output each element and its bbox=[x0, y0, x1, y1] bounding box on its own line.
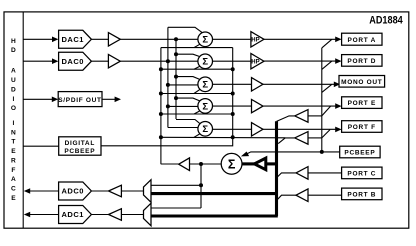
mixer 2 top input from DAC1 bus bbox=[176, 54, 201, 57]
svg-text:S/PDIF OUT: S/PDIF OUT bbox=[58, 97, 101, 104]
svg-text:R: R bbox=[11, 157, 16, 164]
svg-text:PORT F: PORT F bbox=[348, 124, 376, 131]
wire PCBEEP to big mixer bbox=[246, 152, 340, 154]
wire amp4 to PORT E bbox=[263, 105, 336, 107]
svg-text:Σ: Σ bbox=[202, 80, 208, 91]
HP amp 2 bbox=[251, 54, 264, 69]
junction DAC0 bus to mixer3 bbox=[166, 83, 170, 87]
junction dot on PCBEEP wire bbox=[320, 150, 324, 154]
wire to mux1 (thin) bbox=[151, 207, 201, 209]
wire HP1 to PORT A bbox=[264, 38, 336, 40]
tap to PORT E wire bbox=[322, 106, 331, 116]
svg-text:D: D bbox=[11, 86, 16, 93]
wire DAC1 amp to mixer 1 bbox=[120, 38, 198, 40]
ADC1 buffer (left triangle) bbox=[109, 209, 122, 221]
DIGITAL PCBEEP box bbox=[59, 137, 101, 155]
bus DAC1 (vertical) bbox=[175, 39, 177, 119]
wire PORT C to buffer bbox=[308, 172, 342, 174]
junction DAC1 bus origin bbox=[174, 37, 178, 41]
wire port F tap to buffer bbox=[308, 137, 322, 139]
wire ADC0 to HD with left arrow bbox=[30, 190, 59, 192]
svg-text:E: E bbox=[11, 195, 16, 202]
mixer 1 top input from DAC0 bus bbox=[168, 27, 203, 33]
PORT D box bbox=[342, 55, 382, 67]
wire HD to DIGITAL PCBEEP bbox=[23, 145, 59, 147]
arrow out of S/PDIF OUT bbox=[102, 98, 116, 100]
HP amp 1 bbox=[251, 32, 264, 47]
wire buffer to ADC0 bbox=[91, 190, 108, 192]
input buffer port F (left triangle) bbox=[295, 132, 308, 145]
svg-text:I: I bbox=[12, 120, 14, 127]
pcbeep feed bus (vertical right) bbox=[321, 48, 323, 152]
junction collector row4 bbox=[231, 112, 235, 116]
svg-text:ADC1: ADC1 bbox=[62, 210, 84, 219]
mixer 4 top input from DAC1 bus bbox=[176, 98, 201, 101]
bold wire attenuator to big mixer bbox=[242, 162, 254, 165]
wire PORT B to buffer bbox=[308, 194, 342, 196]
MONO OUT box bbox=[339, 76, 385, 88]
wire mixer5 to amp bbox=[212, 128, 251, 130]
svg-text:F: F bbox=[11, 167, 15, 174]
wire HD to DAC0 bbox=[23, 60, 52, 62]
PORT C box bbox=[342, 167, 382, 179]
amp after DAC0 bbox=[108, 55, 120, 68]
amp 5 bbox=[252, 123, 264, 136]
mixer 3 bottom input line bbox=[161, 93, 233, 95]
svg-text:PCBEEP: PCBEEP bbox=[344, 150, 375, 157]
junction DAC1 bus to mixer2 bbox=[174, 52, 178, 56]
svg-text:Σ: Σ bbox=[202, 124, 208, 135]
record mux 1 bbox=[144, 203, 152, 226]
input buffer port E (left triangle) bbox=[295, 110, 308, 123]
input buffer port C (left triangle) bbox=[296, 167, 308, 180]
junction collector row3 bbox=[231, 92, 235, 96]
S/PDIF OUT box bbox=[58, 92, 102, 107]
wire to mux0 (thin) bbox=[151, 184, 201, 186]
mixer U5 (sum) bbox=[198, 122, 213, 137]
amp 4 bbox=[252, 99, 264, 112]
bold wire bus to mux0 bbox=[151, 192, 277, 195]
junction mix bus to long wire bbox=[159, 135, 163, 139]
svg-text:PORT A: PORT A bbox=[348, 37, 377, 44]
svg-text:H: H bbox=[11, 38, 16, 45]
svg-text:PORT C: PORT C bbox=[347, 171, 376, 178]
mixer 5 mid input from DAC0 bus bbox=[168, 127, 198, 129]
vertical wire to record muxes bbox=[200, 164, 202, 208]
label HD AUDIO INTERFACE bbox=[11, 38, 16, 202]
junction mix bus to mixer2 bbox=[159, 67, 163, 71]
HD Audio Interface strip divider bbox=[22, 12, 24, 228]
junction DAC0 bus origin bbox=[166, 59, 170, 63]
svg-text:E: E bbox=[11, 148, 16, 155]
PORT B box bbox=[342, 188, 382, 200]
svg-text:DIGITAL: DIGITAL bbox=[65, 140, 95, 147]
svg-text:T: T bbox=[11, 139, 15, 146]
svg-text:DAC1: DAC1 bbox=[62, 35, 84, 44]
svg-text:Σ: Σ bbox=[228, 158, 236, 172]
wire mux1 to ADC1 buffer bbox=[121, 214, 143, 216]
mixer 5 bottom input slant bbox=[194, 133, 201, 137]
svg-text:PORT E: PORT E bbox=[348, 100, 376, 107]
mixer 5 top input from DAC1 bus bbox=[176, 120, 201, 125]
tap to PORT A wire bbox=[322, 39, 332, 48]
wire port E tap to buffer bbox=[308, 115, 322, 117]
wire buffer B to bold bus bbox=[277, 195, 297, 200]
ADC1 block bbox=[59, 206, 92, 224]
mixer 4 mid input from DAC0 bus bbox=[168, 105, 198, 107]
wire buffer to ADC1 bbox=[91, 214, 108, 216]
svg-text:Σ: Σ bbox=[202, 35, 208, 46]
bus DAC0 (vertical) bbox=[167, 27, 169, 127]
wire DAC0 amp to mixer 2 bbox=[120, 60, 198, 62]
PORT F box bbox=[342, 121, 382, 133]
wire buffer F output to record bus bbox=[278, 138, 295, 144]
wire mono buffer to mix bus bbox=[161, 163, 179, 165]
bus PCBEEP mix (vertical) bbox=[160, 48, 162, 165]
wire HP2 to PORT D bbox=[264, 60, 336, 62]
wire HD to S/PDIF OUT bbox=[23, 98, 52, 100]
record mux 0 bbox=[144, 180, 152, 203]
mixer 4 bottom input line bbox=[161, 113, 233, 115]
mixer U4 (sum) bbox=[198, 99, 213, 114]
svg-text:D: D bbox=[11, 47, 16, 54]
svg-text:DAC0: DAC0 bbox=[62, 57, 84, 66]
tap to PORT D wire bbox=[322, 61, 332, 69]
junction collector row2 bbox=[231, 67, 235, 71]
wire DAC0 to amp bbox=[91, 60, 108, 62]
wire mixer1 to HP amp bbox=[212, 38, 251, 40]
mixer 1 bottom input line bbox=[161, 47, 233, 49]
PORT A box bbox=[342, 33, 382, 45]
svg-text:N: N bbox=[11, 129, 16, 136]
wire big mixer to mono buffer bbox=[190, 163, 222, 165]
svg-text:ADC0: ADC0 bbox=[62, 187, 84, 196]
wire amp3 to MONO OUT bbox=[263, 83, 335, 85]
svg-text:Σ: Σ bbox=[202, 101, 208, 112]
svg-text:I: I bbox=[12, 96, 14, 103]
wire mixer4 to amp bbox=[212, 105, 251, 107]
svg-text:O: O bbox=[11, 105, 16, 112]
ADC0 buffer (left triangle) bbox=[109, 185, 122, 197]
svg-text:PCBEEP: PCBEEP bbox=[64, 148, 95, 155]
junction mix bus to mixer4 bbox=[159, 112, 163, 116]
DAC0 block bbox=[59, 52, 92, 70]
DAC1 block bbox=[59, 30, 92, 48]
svg-text:AD1884: AD1884 bbox=[369, 15, 403, 27]
ADC0 block bbox=[59, 182, 92, 200]
mixer 3 top input from DAC1 bus bbox=[176, 77, 201, 80]
mono buffer (left triangle) bbox=[179, 158, 190, 171]
wire buffer E to bold bus top bbox=[277, 116, 295, 122]
mixer U2 (sum) bbox=[198, 54, 213, 69]
bold wire bus to mux1 bbox=[151, 214, 278, 217]
wire HD to DAC1 bbox=[23, 38, 52, 40]
record bus (bold vertical) bbox=[275, 121, 278, 216]
wire mux0 to ADC0 buffer bbox=[121, 190, 143, 192]
mixer U1 (sum) bbox=[198, 32, 213, 47]
long mix wire to record bus bbox=[161, 136, 285, 139]
wire mixer2 to HP amp bbox=[212, 60, 251, 62]
svg-text:C: C bbox=[11, 186, 16, 193]
wire mixer3 to amp bbox=[212, 83, 251, 85]
mixer 3 mid input from DAC0 bus bbox=[168, 84, 198, 86]
junction mix bus to mixer3 bbox=[159, 92, 163, 96]
mixer 2 bottom input line bbox=[161, 68, 233, 70]
amp after DAC1 bbox=[108, 33, 120, 46]
junction collector row5 bbox=[231, 135, 235, 139]
svg-text:HP: HP bbox=[251, 38, 259, 44]
junction DAC1 bus to mixer3 bbox=[174, 75, 178, 79]
svg-text:U: U bbox=[11, 77, 16, 84]
wire ADC1 to HD with left arrow bbox=[30, 214, 59, 216]
svg-text:A: A bbox=[11, 68, 16, 75]
wire DAC1 to amp bbox=[91, 38, 108, 40]
tap to PORT F wire bbox=[322, 130, 330, 138]
big mixer (sum) bbox=[221, 153, 242, 174]
junction DAC0 bus to mixer4 bbox=[166, 104, 170, 108]
PCBEEP box bbox=[340, 146, 380, 158]
input buffer port B (left triangle) bbox=[296, 189, 308, 202]
junction DAC1 bus to mixer4 bbox=[174, 96, 178, 100]
svg-text:Σ: Σ bbox=[202, 57, 208, 68]
svg-text:PORT B: PORT B bbox=[347, 192, 376, 199]
svg-text:HP: HP bbox=[251, 60, 259, 66]
amp 3 bbox=[252, 78, 264, 91]
bold attenuator triangle bbox=[254, 158, 265, 170]
collector bus to big mixer branch bbox=[101, 48, 233, 146]
bold wire bus to attenuator bbox=[266, 162, 277, 165]
tap to MONO OUT wire bbox=[322, 84, 332, 92]
svg-text:PORT D: PORT D bbox=[347, 58, 376, 65]
wire amp5 to PORT F bbox=[263, 128, 336, 130]
svg-text:A: A bbox=[11, 176, 16, 183]
wire buffer C to bold bus bbox=[277, 173, 297, 178]
mixer U3 (sum) bbox=[198, 77, 213, 92]
svg-text:MONO OUT: MONO OUT bbox=[341, 79, 382, 86]
PORT E box bbox=[342, 97, 382, 109]
